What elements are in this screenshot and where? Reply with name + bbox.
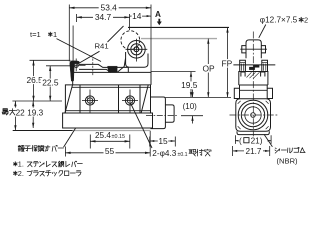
side view: band inner top line bbox=[72, 86, 151, 88]
lever R41 radius line bbox=[77, 51, 100, 64]
mounting hole right: circles bbox=[125, 96, 134, 105]
svg-text:22.5: 22.5 bbox=[42, 77, 59, 87]
dim (10) bbox=[192, 90, 194, 98]
dim 25.4 bbox=[90, 140, 130, 142]
roller axle line bbox=[240, 48, 267, 50]
mounting hole left: circles bbox=[85, 96, 94, 105]
svg-text:26.5: 26.5 bbox=[26, 75, 43, 85]
leader terminal cover bbox=[64, 128, 76, 147]
svg-text:55: 55 bbox=[105, 146, 115, 156]
seal rubber strip bbox=[237, 131, 269, 134]
dim 14 bbox=[129, 14, 131, 30]
ext line head left edge bbox=[72, 26, 74, 61]
leader phi12.7 bbox=[259, 25, 266, 38]
neck ears bbox=[234, 88, 239, 98]
side view: band left wedge line bbox=[65, 85, 73, 113]
fork column left bbox=[240, 60, 246, 71]
svg-text:19.3: 19.3 bbox=[27, 108, 43, 117]
side view: clamp band outline bbox=[65, 85, 150, 113]
head pivot axis line bbox=[231, 64, 275, 66]
svg-text:53.4: 53.4 bbox=[101, 3, 118, 13]
dim 19.3 bbox=[32, 101, 34, 128]
FP reference line bbox=[128, 26, 229, 28]
svg-text:(NBR): (NBR) bbox=[277, 157, 299, 166]
lever step centerline bbox=[92, 59, 94, 77]
roller free position (dashed circle) bbox=[121, 31, 140, 50]
footnote 2 bbox=[14, 171, 17, 175]
lever arm outline bbox=[79, 64, 113, 72]
svg-text:(10): (10) bbox=[183, 102, 198, 111]
dim 53.4 bbox=[68, 5, 70, 62]
svg-text:2-φ4.3: 2-φ4.3 bbox=[152, 149, 176, 158]
svg-text:34.7: 34.7 bbox=[95, 12, 112, 22]
lever folded section (black) bbox=[108, 66, 118, 72]
leader mounting hole bbox=[131, 103, 153, 148]
dim FP bbox=[227, 27, 229, 97]
svg-text:φ12.7×7.5: φ12.7×7.5 bbox=[260, 16, 298, 25]
ext line mounting plane bbox=[12, 100, 62, 102]
svg-text:2: 2 bbox=[304, 16, 308, 25]
conduit centerline bbox=[146, 115, 178, 117]
conduit step bbox=[165, 105, 174, 122]
svg-text:14: 14 bbox=[132, 11, 142, 21]
lever pivot circle bbox=[74, 63, 78, 67]
lever cross-section (black) bbox=[249, 67, 255, 70]
terminal cover max line (gray) bbox=[73, 130, 151, 132]
side view: base plate bbox=[63, 113, 153, 128]
svg-text:OP: OP bbox=[203, 63, 216, 73]
front view centerline bbox=[252, 32, 254, 143]
side view: band seam lines bbox=[79, 85, 81, 113]
dim 22.5 bbox=[49, 66, 51, 101]
head-top ext right bbox=[151, 71, 196, 73]
dim max22 bbox=[14, 101, 16, 131]
svg-text:25.4: 25.4 bbox=[95, 131, 111, 140]
svg-text:A: A bbox=[155, 10, 161, 19]
svg-text:21.7: 21.7 bbox=[246, 147, 262, 156]
side view: band right wedge line bbox=[141, 85, 148, 113]
svg-text:FP: FP bbox=[222, 58, 233, 68]
body corner marks bbox=[238, 101, 241, 104]
footnote 1 bbox=[14, 162, 17, 166]
leader t=1 bbox=[57, 39, 102, 62]
dim 25.4 ext lines bbox=[89, 135, 91, 149]
dim 19.5 bbox=[190, 72, 192, 98]
side view: head cutout notch for lever bbox=[113, 67, 128, 72]
plunger circles bbox=[238, 100, 268, 130]
svg-text:±0.1: ±0.1 bbox=[178, 152, 188, 158]
dim 15 bbox=[149, 137, 151, 147]
svg-text:15: 15 bbox=[158, 136, 168, 146]
mounting hole left: crosshair bbox=[89, 90, 91, 113]
dim 55 bbox=[64, 147, 66, 157]
svg-text:1: 1 bbox=[53, 30, 57, 39]
neck section bbox=[239, 85, 268, 99]
plunger crosshair bbox=[230, 114, 278, 116]
svg-text:19.5: 19.5 bbox=[181, 80, 198, 90]
lever pivot crosshair bbox=[71, 64, 86, 66]
front head block bbox=[239, 72, 268, 86]
roller circles (side view, operating position) bbox=[128, 41, 146, 59]
svg-text:(: ( bbox=[239, 136, 242, 145]
leader R41 bbox=[108, 26, 124, 42]
conduit block bbox=[151, 97, 166, 129]
roller axle pins bbox=[242, 46, 246, 53]
svg-text:1.: 1. bbox=[18, 160, 24, 169]
max-22 extension line bbox=[13, 130, 73, 132]
dim square21 bbox=[234, 135, 236, 144]
side view: switch head block bbox=[73, 72, 151, 85]
ext line pivot level bbox=[46, 65, 71, 67]
head screw slots bbox=[241, 72, 245, 77]
svg-text:2.: 2. bbox=[18, 169, 24, 178]
front roller bbox=[246, 40, 261, 58]
OP reference line (gray) bbox=[141, 38, 217, 40]
label seal rubber NBR bbox=[275, 148, 280, 153]
mounting hole right: crosshair bbox=[129, 90, 131, 113]
dim 26.5 bbox=[33, 60, 35, 101]
dim 34.7 bbox=[76, 14, 78, 22]
label terminal protection cover bbox=[18, 145, 24, 151]
side view: band inner bottom line bbox=[66, 110, 151, 112]
svg-text:21): 21) bbox=[251, 136, 263, 145]
text max22 19.3 bbox=[2, 108, 42, 117]
svg-text:22: 22 bbox=[16, 108, 26, 117]
head hatch bbox=[247, 72, 252, 77]
ext line lever-plate top bbox=[30, 59, 71, 61]
svg-text:R41: R41 bbox=[95, 42, 109, 51]
fork column right bbox=[262, 60, 268, 71]
roller crosshair bbox=[135, 39, 137, 62]
column slots bbox=[240, 64, 242, 71]
mounting plane ext right bbox=[166, 96, 232, 98]
lever end plate (black, t=1 stainless) bbox=[70, 61, 80, 82]
roller bracket bbox=[118, 52, 148, 72]
dim 21.7 bbox=[232, 146, 234, 156]
leader seal rubber bbox=[264, 134, 272, 147]
front body square bbox=[236, 99, 271, 132]
dim OP bbox=[207, 39, 209, 98]
svg-text:±0.15: ±0.15 bbox=[112, 134, 125, 140]
svg-text:t=1: t=1 bbox=[30, 30, 41, 39]
